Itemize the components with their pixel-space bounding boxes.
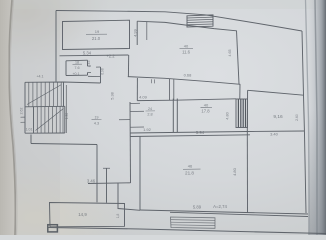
svg-text:3.46: 3.46 [87,179,96,184]
warm bottom-left page tone [0,163,130,240]
wall C [136,78,138,101]
wall D corridor top [137,99,236,101]
svg-text:1.45: 1.45 [87,61,91,68]
page edge vertical line right [306,0,310,235]
ground line bottom [48,228,326,234]
outer wall top [56,11,302,32]
tick at V2 top [103,167,110,169]
wall V4 [139,136,141,210]
label room21.8 bar [183,168,201,170]
stair treads upper flight [29,82,61,107]
lobby right wall [100,67,102,83]
svg-text:21.0: 21.0 [92,36,101,41]
small room 7.6 left wall [65,61,67,76]
wall line below room 19 [60,54,129,57]
attic hatch lines [187,17,213,25]
partition V2 [106,169,108,203]
right dark band (page gutter) [306,0,326,235]
svg-text:4.09: 4.09 [139,95,148,100]
label room19 fraction bar [86,33,107,35]
partition V3 [118,183,140,210]
veranda pillar column [48,225,58,232]
svg-text:2.62: 2.62 [20,108,24,115]
room 17.8 left double wall [173,99,177,133]
outer wall jog below stairs [30,135,32,144]
left page sliver beyond page edge [0,0,15,235]
chimney flue stripes [238,99,245,127]
svg-text:40: 40 [184,44,189,49]
svg-text:18: 18 [75,61,79,65]
svg-text:5.34: 5.34 [83,51,92,56]
svg-text:+0.1: +0.1 [72,72,79,76]
left lower outer wall [96,145,98,203]
door ticks on wall A [152,79,155,83]
veranda outline [50,203,125,227]
svg-text:4.80: 4.80 [226,112,230,119]
hall comb rungs [119,103,144,127]
soft top band shade [0,0,326,9]
wall A bottom of room 11.6 [128,77,241,85]
stair right wall second line [65,85,67,133]
stair walk-line diagonal lower [36,109,64,131]
svg-text:17.8: 17.8 [201,109,210,114]
hall west wall W [129,102,132,183]
warm top-left corner of photo [0,0,110,67]
label stairhall bar [92,119,102,121]
room 11.6 left wall second line [146,21,148,40]
darker lower right corner [0,0,1,1]
soft left column shade [12,0,60,235]
wall stub above room 17.8 [170,79,174,100]
porch steps [171,217,216,228]
stairwell top edge [25,82,101,83]
stairwell upper flight right wall [63,82,65,107]
svg-text:9,16: 9,16 [273,114,283,120]
outer wall left upper [55,11,57,82]
bottom wall of left wing [31,144,97,145]
label room17.8 bar [201,106,213,108]
svg-text:4.3: 4.3 [94,122,99,126]
lower flight right wall [64,106,66,133]
hall wall B [127,55,129,77]
small room 7.6 right wall with door gap [87,60,89,75]
svg-text:21.8: 21.8 [185,170,194,175]
svg-text:5.94: 5.94 [196,130,205,135]
page edge curve left [9,0,15,235]
room 11.6 left wall [136,21,138,45]
wall E [88,182,131,185]
tick marks left of stairs [21,117,26,122]
double wall top of room 21.8 [130,131,304,133]
svg-text:2.8: 2.8 [147,113,152,117]
room 9.16 left wall [246,90,248,131]
wall below room 9.16 down to bottom [246,131,248,213]
svg-text:46: 46 [188,164,193,169]
svg-text:24: 24 [148,107,152,111]
svg-text:19: 19 [95,29,100,34]
label room11.6 bar [180,47,194,49]
room 19 (21.0) outline [63,20,130,49]
svg-text:1,8: 1,8 [116,214,120,219]
bottom wall double [140,210,308,214]
label hall bar [146,110,156,112]
svg-text:5.38: 5.38 [111,92,115,99]
outer wall right [302,31,306,213]
svg-text:4.99: 4.99 [133,28,138,37]
door ticks small room [88,66,92,73]
svg-text:19: 19 [95,116,99,120]
svg-text:4.65: 4.65 [228,50,232,57]
svg-text:1.92: 1.92 [143,127,152,132]
stair walk-line diagonal upper [27,85,62,105]
svg-text:5.89: 5.89 [193,205,202,210]
svg-text:4.80: 4.80 [232,167,237,176]
svg-text:1.01: 1.01 [26,128,33,132]
svg-text:11.6: 11.6 [182,50,191,55]
svg-text:1.30: 1.30 [65,113,69,119]
label room7.6 bar [73,63,83,65]
svg-text:+2.2: +2.2 [106,54,115,59]
svg-text:14,9: 14,9 [78,212,87,217]
stair flight divider [25,105,65,108]
stairwell bottom edge [25,132,65,134]
svg-text:+4.1: +4.1 [36,75,43,79]
svg-text:3.40: 3.40 [270,132,279,137]
svg-text:А=2,74: А=2,74 [213,204,227,209]
threshold line right of small room [88,75,101,77]
svg-text:0.68: 0.68 [184,73,193,78]
second line of that wall [130,135,250,137]
stairwell left wall [24,82,26,133]
small room 7.6 bottom wall [66,74,88,76]
stair treads lower flight [37,106,63,133]
svg-text:0.98: 0.98 [101,68,105,74]
svg-text:40: 40 [204,103,209,108]
room 11.6 top wall [137,21,236,31]
chimney flue box [236,99,248,128]
attic hatch box [187,15,213,27]
small room 7.6 top wall [66,59,88,62]
room 11.6 right wall [237,31,240,85]
lobby wall top tick [96,66,101,68]
wall to chimney [239,84,241,99]
svg-text:7.6: 7.6 [74,66,79,70]
lower flight left wall [33,107,35,133]
svg-text:2.60: 2.60 [295,114,299,121]
room 9.16 top wall [248,90,304,95]
